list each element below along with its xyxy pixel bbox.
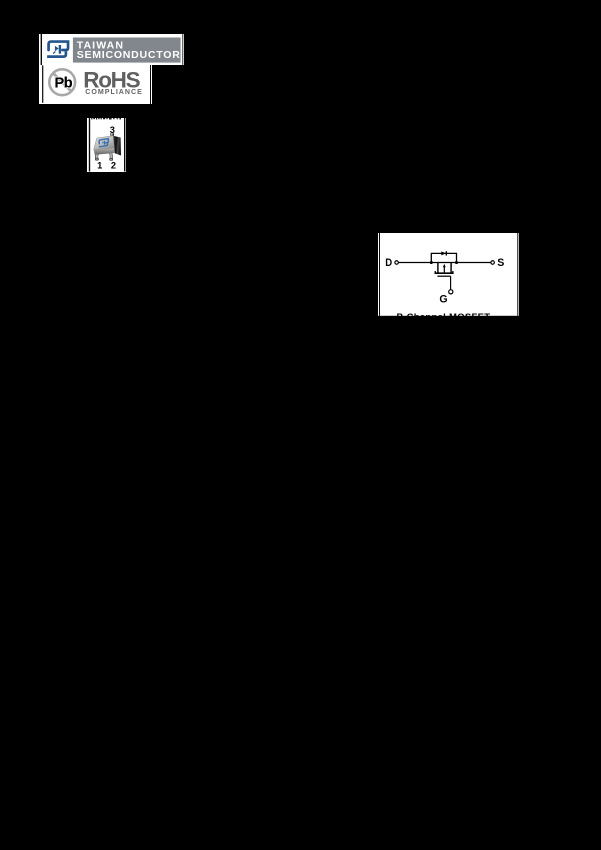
svg-text:Pb: Pb <box>54 75 72 91</box>
svg-text:SEMICONDUCTOR: SEMICONDUCTOR <box>77 49 181 61</box>
svg-text:S: S <box>497 257 504 269</box>
svg-text:P-Channel MOSFET: P-Channel MOSFET <box>396 312 490 316</box>
svg-text:G: G <box>439 293 447 305</box>
svg-text:COMPLIANCE: COMPLIANCE <box>85 87 143 95</box>
svg-text:3: 3 <box>110 125 115 135</box>
svg-text:D: D <box>385 257 392 269</box>
svg-text:1: 1 <box>97 160 102 170</box>
svg-text:2: 2 <box>111 160 116 170</box>
